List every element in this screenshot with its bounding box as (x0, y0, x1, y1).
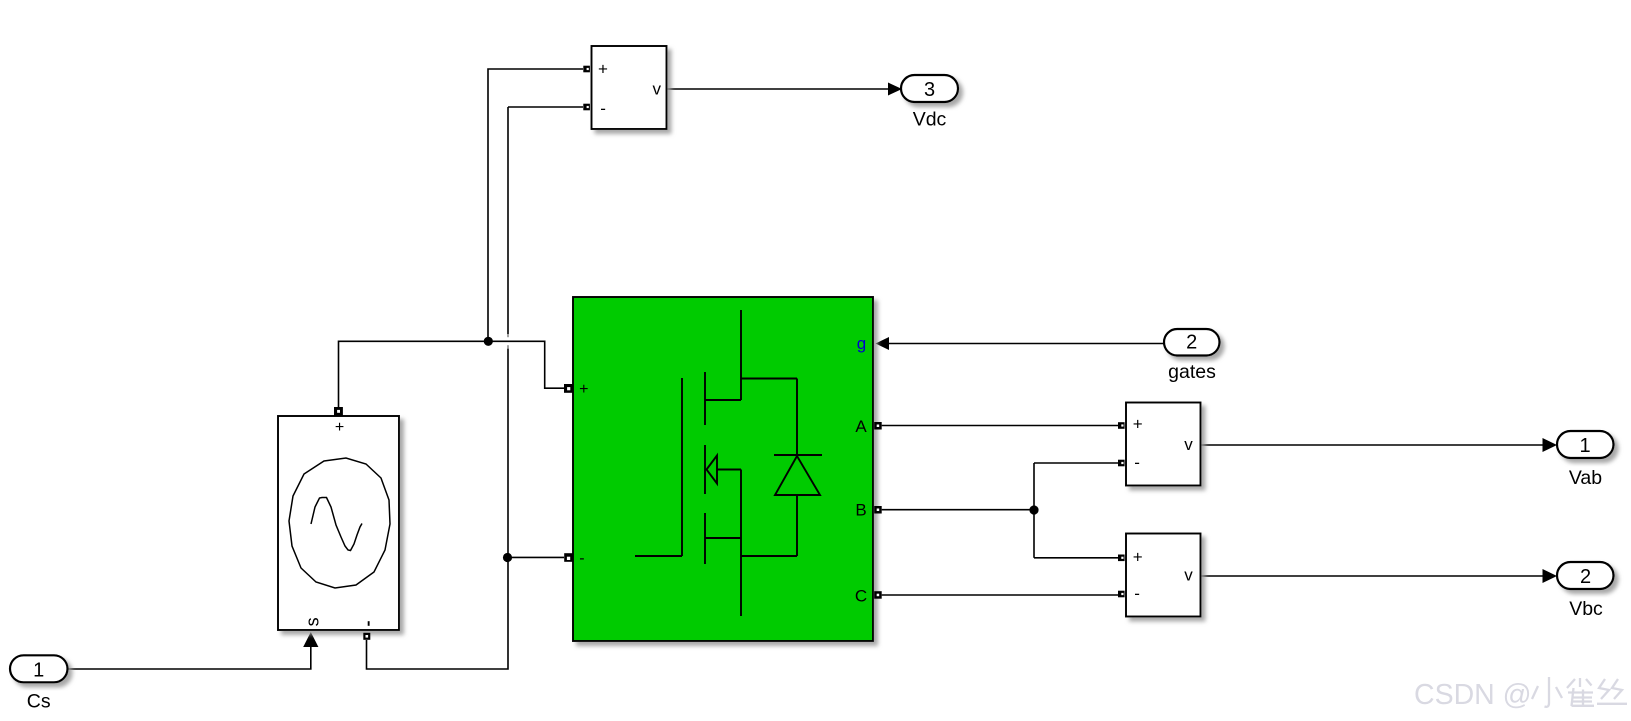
svg-text:v: v (653, 80, 662, 99)
svg-text:-: - (1134, 584, 1140, 603)
svg-text:+: + (335, 419, 344, 436)
svg-text:C: C (855, 587, 867, 606)
svg-text:1: 1 (1579, 435, 1590, 457)
svg-text:2: 2 (1186, 332, 1197, 354)
svg-text:B: B (855, 501, 866, 520)
svg-text:A: A (855, 417, 867, 436)
svg-text:+: + (579, 381, 588, 398)
svg-text:Cs: Cs (27, 691, 51, 713)
svg-text:Vab: Vab (1569, 467, 1602, 489)
svg-text:+: + (1133, 415, 1143, 434)
svg-text:g: g (857, 334, 866, 353)
svg-text:3: 3 (924, 79, 935, 101)
svg-text:-: - (1134, 453, 1140, 472)
svg-text:gates: gates (1168, 361, 1216, 383)
svg-text:v: v (1184, 566, 1193, 585)
svg-text:1: 1 (33, 659, 44, 681)
svg-text:v: v (1184, 435, 1193, 454)
svg-text:-: - (579, 550, 584, 567)
svg-text:+: + (1133, 547, 1143, 566)
svg-text:s: s (303, 617, 323, 626)
svg-text:2: 2 (1580, 566, 1591, 588)
svg-text:Vbc: Vbc (1569, 598, 1603, 620)
svg-text:CSDN @: CSDN @ (1414, 679, 1532, 711)
svg-text:+: + (598, 60, 608, 79)
svg-text:-: - (600, 99, 606, 118)
svg-text:Vdc: Vdc (913, 109, 947, 131)
